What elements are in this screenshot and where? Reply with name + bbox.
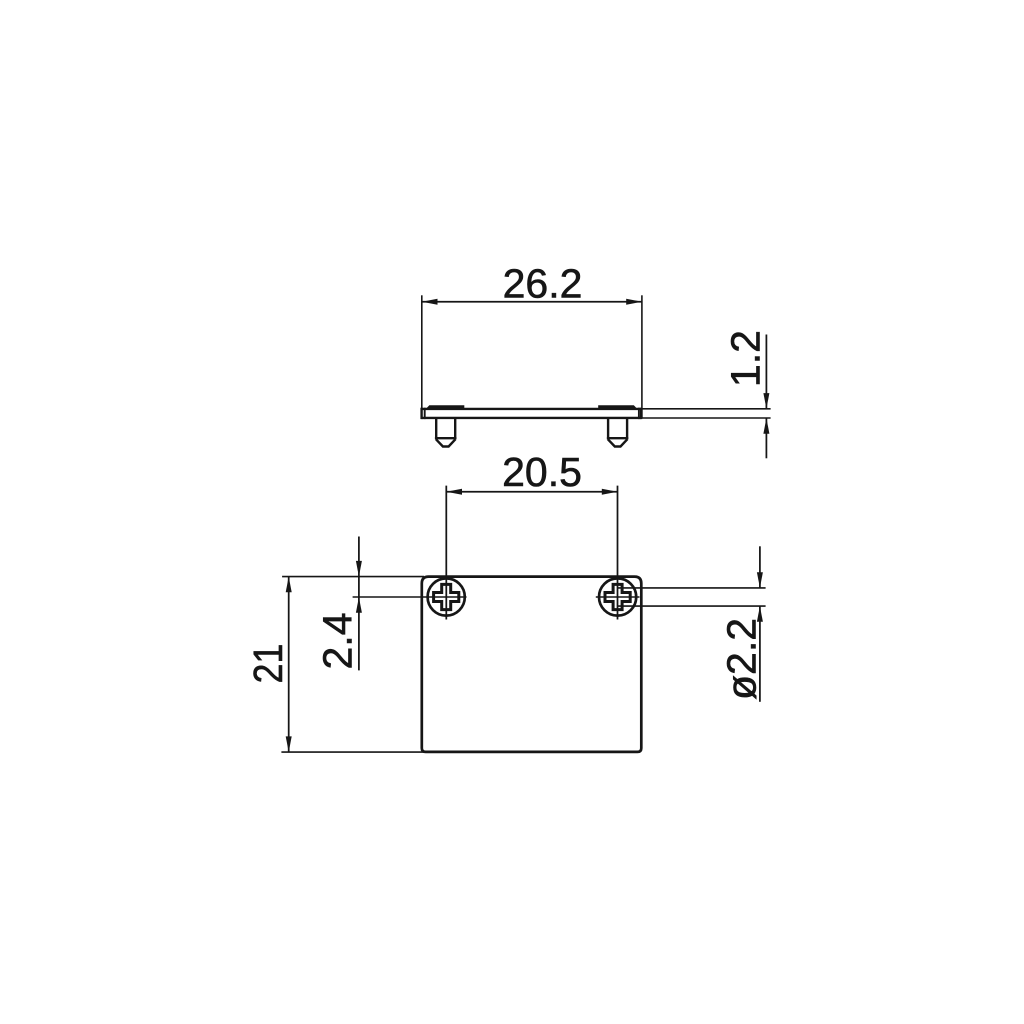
right pin chamfered tip: [608, 439, 628, 446]
side view plate right seam line: [638, 408, 640, 419]
extension line 26.2 left: [421, 295, 423, 408]
side view plate left end: [420, 408, 422, 419]
side view plate top edge: [421, 408, 641, 410]
arrow dia2.2 up: [757, 606, 763, 622]
dimension text 21: [246, 644, 292, 684]
left screw phillips cross: [434, 584, 459, 609]
right screw phillips cross: [605, 584, 630, 609]
side view plate left seam line: [424, 408, 426, 419]
extension line dia2.2 bottom: [618, 605, 766, 607]
left gasket tab on plate top: [426, 405, 465, 409]
right pin body: [607, 419, 629, 438]
right screw head circle: [599, 578, 636, 615]
extension line 21 bottom: [281, 751, 424, 753]
dimension line dia2.2 lower: [759, 606, 761, 702]
right gasket tab on plate top: [598, 405, 637, 409]
dimension text dia2.2: [719, 618, 765, 700]
left screw head circle: [428, 578, 465, 615]
right screw vertical centerline: [617, 486, 619, 620]
arrow 20.5 right: [602, 489, 618, 495]
left screw horizontal centerline: [353, 596, 467, 598]
arrow 21 down: [286, 736, 292, 752]
arrow 1.2 up: [763, 418, 769, 434]
arrow 2.4 down: [356, 561, 362, 577]
dimension line 20.5: [446, 491, 617, 493]
svg-text:20.5: 20.5: [502, 449, 582, 495]
arrow 21 up: [286, 577, 292, 593]
dimension text 1.2: [723, 330, 769, 387]
left pin body: [435, 419, 457, 438]
arrow 1.2 down: [763, 393, 769, 409]
side view plate bottom edge: [421, 417, 641, 419]
extension line 26.2 right: [641, 295, 643, 418]
left screw vertical centerline: [445, 486, 447, 620]
extension line dia2.2 top: [618, 587, 766, 589]
arrow dia2.2 down: [757, 572, 763, 588]
arrow 26.2 left: [422, 299, 438, 305]
extension line 21 top: [282, 576, 424, 578]
right screw horizontal centerline: [596, 596, 640, 598]
dimension line 1.2 upper: [765, 335, 767, 409]
dimension text 26.2: [503, 260, 583, 306]
dimension line 26.2: [422, 301, 642, 303]
left pin chamfered tip: [436, 439, 456, 446]
dimension line 1.2 lower: [765, 418, 767, 458]
front view plate outline: [422, 577, 642, 752]
dimension text 2.4: [315, 613, 361, 670]
arrow 20.5 left: [446, 489, 462, 495]
dimension line 2.4: [358, 537, 360, 671]
arrow 2.4 up: [356, 597, 362, 613]
dimension line 21: [288, 577, 290, 753]
extension line 1.2 top: [642, 408, 771, 410]
arrow 26.2 right: [626, 299, 642, 305]
svg-text:26.2: 26.2: [503, 260, 583, 306]
svg-text:ø2.2: ø2.2: [719, 618, 765, 700]
extension line 1.2 bottom: [642, 417, 771, 419]
svg-text:1.2: 1.2: [723, 330, 769, 387]
svg-text:21: 21: [246, 644, 292, 684]
svg-text:2.4: 2.4: [315, 613, 361, 670]
dimension text 20.5: [502, 449, 582, 495]
side view plate right end: [640, 408, 642, 419]
dimension line dia2.2 upper: [759, 546, 761, 588]
